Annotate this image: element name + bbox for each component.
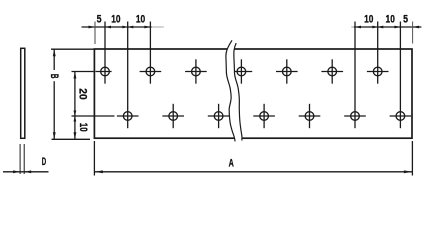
- svg-text:A: A: [229, 158, 234, 170]
- hole B4 bottom row: [260, 112, 269, 121]
- hole T6 top row: [328, 67, 337, 76]
- dimension chain 5-10-10 top left: dimension line: [82, 26, 152, 28]
- svg-text:10: 10: [111, 13, 120, 25]
- svg-text:10: 10: [136, 13, 145, 25]
- extension line top edge left: [51, 48, 94, 50]
- hole T5 top row: [282, 67, 291, 76]
- svg-text:10: 10: [386, 13, 395, 25]
- extension lines for D: [19, 144, 21, 174]
- hole T1 top row: [101, 67, 110, 76]
- svg-text:20: 20: [77, 88, 89, 99]
- extension line bottom edge left: [52, 138, 91, 140]
- extension line plate left edge to A dim: [93, 141, 95, 176]
- break lines (interrupted length): [230, 41, 239, 141]
- dimension 20 line: [74, 72, 76, 117]
- svg-text:5: 5: [403, 13, 408, 25]
- svg-text:10: 10: [77, 123, 89, 132]
- dimension B line: [53, 49, 55, 70]
- dimension chain 10-10-5 top right: dimension line: [351, 26, 354, 28]
- hole T2 top row: [146, 67, 155, 76]
- extension line top hole row: [72, 71, 94, 73]
- hole T3 top row: [192, 67, 201, 76]
- dimension 10 line: [74, 116, 76, 139]
- arrowheads top-left chain: [89, 26, 96, 29]
- dimension D line: [3, 171, 49, 173]
- hole T7 top row: [373, 67, 382, 76]
- hole B7 bottom row: [396, 112, 405, 121]
- extension line bottom hole row: [72, 115, 115, 117]
- hole B2 bottom row: [169, 112, 178, 121]
- hole B5 bottom row: [305, 112, 314, 121]
- side view plate outline (thickness D): [21, 48, 25, 138]
- extension line at plate left edge: [94, 22, 96, 45]
- hole B3 bottom row: [214, 112, 223, 121]
- extension line at plate right edge: [412, 22, 414, 44]
- hole B1 bottom row: [123, 112, 132, 121]
- arrowheads top-right chain: [355, 26, 361, 29]
- main plate outline (top view): [94, 49, 412, 138]
- svg-text:D: D: [42, 156, 46, 168]
- extension line plate right edge to A dim: [411, 141, 413, 176]
- dimension A line: [94, 171, 412, 173]
- svg-text:B: B: [48, 74, 60, 79]
- svg-text:5: 5: [97, 13, 102, 25]
- hole T4 top row: [237, 67, 246, 76]
- hole B6 bottom row: [351, 112, 360, 121]
- svg-text:10: 10: [364, 13, 373, 25]
